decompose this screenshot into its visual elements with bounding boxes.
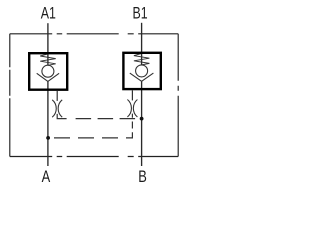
svg-text:A: A <box>42 169 51 187</box>
svg-text:B: B <box>138 169 147 187</box>
svg-text:A1: A1 <box>41 5 56 23</box>
svg-text:B1: B1 <box>133 5 148 23</box>
